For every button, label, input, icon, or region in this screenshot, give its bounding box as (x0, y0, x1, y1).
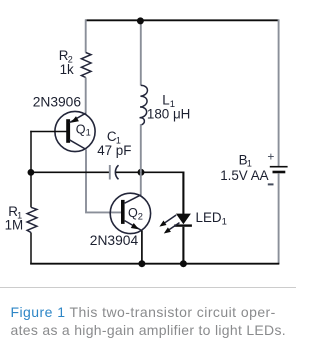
transistor Q1 2N3906 (55, 111, 95, 151)
wire junction down to Q2 collector (140, 172, 142, 195)
resistor R1 (27, 207, 37, 232)
transistor Q2 2N3904 (110, 193, 150, 233)
wire Q1 base to left (30, 131, 66, 133)
svg-text:47 pF: 47 pF (97, 143, 131, 158)
node junction C1/L1/Q2 collector (138, 169, 145, 176)
LED LED1 (159, 214, 192, 234)
wire LED branch down (182, 172, 184, 215)
node junction emitter/bottom rail (138, 260, 145, 267)
svg-text:+: + (267, 149, 274, 163)
inductor L1 (140, 85, 148, 125)
svg-text:1k: 1k (60, 62, 74, 77)
wire R1 bottom to bottom rail (30, 233, 32, 265)
wire left vertical base node down (30, 131, 32, 208)
node junction top rail to L1 (137, 17, 144, 24)
node junction LED/bottom rail (180, 260, 187, 267)
node junction base/C1/R1 (28, 169, 35, 176)
resistor R2 (81, 53, 91, 78)
wire bottom rail (30, 263, 279, 265)
wire right vertical to battery + (278, 20, 280, 167)
svg-text:1.5V AA: 1.5V AA (220, 168, 268, 183)
battery B1 (270, 166, 288, 173)
capacitor C1 (110, 165, 119, 180)
wire left supply vertical (top corner to R2 top) (85, 20, 87, 53)
wire Q2 emitter down (141, 231, 143, 264)
caption (11, 303, 301, 339)
svg-text:2N3906: 2N3906 (33, 95, 82, 110)
wire C1 right to LED branch (116, 171, 184, 173)
wire R2 bottom to Q1 emitter (85, 78, 87, 115)
wire top rail (85, 19, 279, 21)
wire LED cathode down (182, 227, 184, 264)
svg-text:Q2: Q2 (128, 206, 143, 221)
svg-text:180 μH: 180 μH (147, 107, 190, 122)
wire feedback horizontal to C1 (31, 171, 110, 173)
wire battery - down (278, 173, 280, 264)
wire top dot to L1 (140, 20, 142, 85)
caption separator (0, 287, 296, 288)
svg-text:B1: B1 (239, 152, 252, 168)
svg-text:Q1: Q1 (76, 122, 91, 137)
svg-text:1M: 1M (5, 218, 24, 233)
label battery minus (268, 183, 274, 185)
wire L1 bottom to junction (140, 124, 142, 172)
svg-text:LED1: LED1 (196, 210, 227, 228)
wire Q1 collector down to Q2 base level (86, 149, 121, 212)
svg-text:2N3904: 2N3904 (90, 233, 139, 248)
